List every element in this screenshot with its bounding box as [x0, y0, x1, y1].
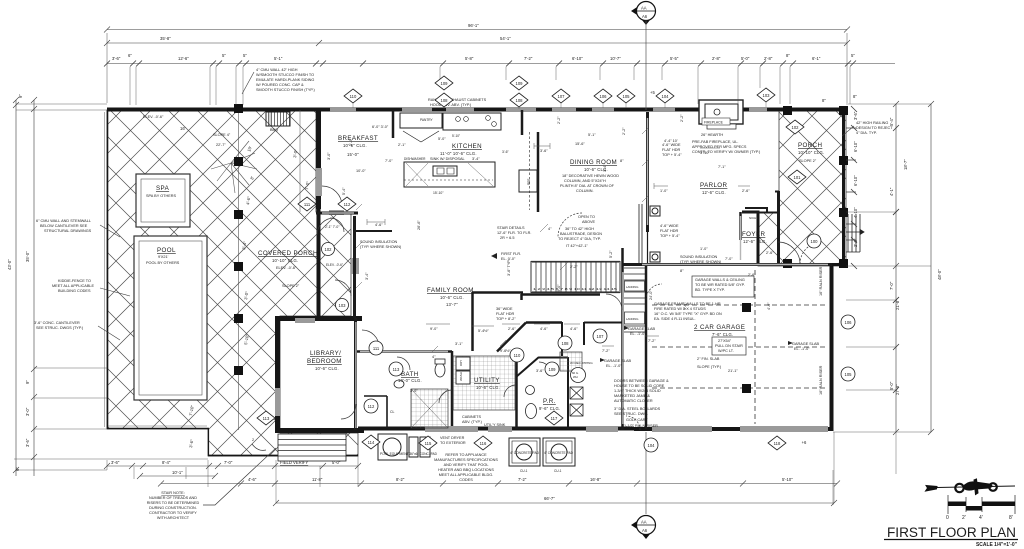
- svg-text:116: 116: [480, 441, 487, 446]
- svg-text:5'-0": 5'-0": [332, 460, 341, 465]
- svg-text:PARLOR: PARLOR: [700, 182, 728, 189]
- svg-text:2'-2": 2'-2": [680, 114, 684, 122]
- interior partitions: [316, 110, 832, 430]
- svg-text:WH: WH: [573, 375, 578, 379]
- family south wall + hall wall: [472, 291, 523, 294]
- svg-text:4'-6": 4'-6": [570, 327, 578, 331]
- family nook wall: [354, 230, 392, 232]
- garage hall walls: [584, 322, 622, 324]
- svg-text:3'-10": 3'-10": [700, 151, 710, 155]
- svg-text:W/PC LT.: W/PC LT.: [718, 349, 734, 353]
- svg-text:4" CONCRETE PAD: 4" CONCRETE PAD: [544, 451, 574, 455]
- svg-text:SLOPE 2": SLOPE 2": [799, 159, 817, 163]
- svg-text:5'-1": 5'-1": [274, 56, 283, 61]
- svg-text:FOYER: FOYER: [742, 231, 765, 238]
- hall diagonal walls: [497, 323, 526, 352]
- svg-text:35'-8": 35'-8": [160, 36, 171, 41]
- svg-text:9'X21': 9'X21': [158, 255, 169, 259]
- svg-text:REFER TO APPLIANCE: REFER TO APPLIANCE: [445, 453, 487, 457]
- svg-text:4'-1": 4'-1": [889, 187, 894, 196]
- svg-text:W/SMOOTH STUCCO FINISH TO: W/SMOOTH STUCCO FINISH TO: [256, 73, 314, 77]
- svg-text:3'-6" TYP.: 3'-6" TYP.: [507, 260, 511, 277]
- svg-text:SOUND INSULATION: SOUND INSULATION: [680, 255, 718, 259]
- svg-text:109: 109: [549, 367, 557, 372]
- svg-text:6'-10": 6'-10": [853, 141, 858, 152]
- library east wall: [354, 318, 357, 430]
- svg-text:EL. -1'-0": EL. -1'-0": [606, 364, 622, 368]
- svg-text:4'-0": 4'-0": [767, 302, 771, 310]
- svg-text:5'-0": 5'-0": [741, 56, 750, 61]
- svg-text:POOL BY OTHERS: POOL BY OTHERS: [146, 261, 180, 265]
- svg-text:WITH ARCHITECT: WITH ARCHITECT: [157, 516, 190, 520]
- svg-text:3'-0": 3'-0": [410, 389, 418, 393]
- svg-text:ELEV. -0'-6": ELEV. -0'-6": [276, 266, 297, 270]
- top dimension tier 2: [104, 40, 850, 46]
- svg-text:POOL EQUIPMENT 36"x6" CONC. PA: POOL EQUIPMENT 36"x6" CONC. PAD: [380, 452, 438, 456]
- svg-text:3'-0": 3'-0": [25, 407, 30, 416]
- svg-text:16" O.C. W/ 5/8" TYPE "X" GYP.: 16" O.C. W/ 5/8" TYPE "X" GYP. BD ON: [654, 312, 722, 316]
- porch columns: [783, 106, 848, 268]
- deck hatch area (pool deck + covered porch): [107, 110, 358, 456]
- svg-text:16': 16': [180, 126, 186, 131]
- svg-text:TOP + 5'-4": TOP + 5'-4": [662, 153, 682, 157]
- svg-text:CABINETS: CABINETS: [462, 415, 481, 419]
- section marker top: [631, 2, 656, 111]
- svg-text:CODES: CODES: [459, 478, 473, 482]
- washer dryer: [456, 357, 470, 384]
- door tag circles: [322, 234, 856, 452]
- railing note right: [856, 121, 893, 135]
- svg-text:10'-10" CLG.: 10'-10" CLG.: [272, 258, 298, 263]
- svg-text:SCALE 1/4"=1'-0": SCALE 1/4"=1'-0": [976, 542, 1018, 548]
- bottom dimension tier 2: [137, 473, 840, 487]
- svg-text:MEET ALL APPLICABLE BLDG.: MEET ALL APPLICABLE BLDG.: [439, 473, 493, 477]
- svg-text:OPEN TO: OPEN TO: [578, 215, 595, 219]
- pool equipment & pads: [378, 434, 575, 466]
- svg-text:11'-8": 11'-8": [312, 477, 323, 482]
- svg-text:102: 102: [792, 125, 800, 130]
- svg-text:5": 5": [243, 53, 247, 58]
- svg-text:DOORS BETWEEN GARAGE &: DOORS BETWEEN GARAGE &: [614, 379, 669, 383]
- svg-text:SLOPE 4": SLOPE 4": [213, 133, 231, 137]
- breakfast south wall: [316, 212, 358, 215]
- svg-text:7'-2": 7'-2": [518, 477, 527, 482]
- svg-text:7'-2": 7'-2": [648, 339, 656, 343]
- svg-text:105: 105: [845, 372, 853, 377]
- svg-text:2'-2": 2'-2": [557, 116, 561, 124]
- svg-text:TOP + 5'-4": TOP + 5'-4": [660, 234, 680, 238]
- svg-text:118: 118: [774, 441, 781, 446]
- svg-text:10'-1": 10'-1": [172, 470, 183, 475]
- svg-text:BELOW CANTILEVER SEE: BELOW CANTILEVER SEE: [40, 224, 88, 228]
- chase X boxes: [570, 387, 583, 399]
- svg-text:105: 105: [623, 94, 631, 99]
- svg-text:DURING CONSTRUCTION.: DURING CONSTRUCTION.: [149, 506, 197, 510]
- svg-text:2'-6": 2'-6": [766, 251, 774, 255]
- bath lav: [394, 380, 404, 388]
- svg-text:PRE-FAB FIREPLACE, UL.: PRE-FAB FIREPLACE, UL.: [692, 140, 738, 144]
- scale bar: [946, 495, 1015, 521]
- svg-text:106: 106: [845, 320, 853, 325]
- svg-text:9'-0": 9'-0": [430, 327, 438, 331]
- bath toilet: [394, 359, 586, 419]
- svg-text:107: 107: [597, 334, 605, 339]
- svg-text:COLUMN, AND 5"X24"H: COLUMN, AND 5"X24"H: [564, 179, 606, 183]
- svg-text:6'-10": 6'-10": [853, 175, 858, 186]
- svg-text:SOUND INSULATION: SOUND INSULATION: [360, 240, 398, 244]
- svg-text:5'-4": 5'-4": [889, 117, 894, 126]
- svg-text:EMULATE HARDI-PLANK SIDING: EMULATE HARDI-PLANK SIDING: [256, 78, 314, 82]
- svg-text:APPROVED PER MFG. SPECS: APPROVED PER MFG. SPECS: [692, 145, 747, 149]
- svg-text:115: 115: [425, 441, 432, 446]
- svg-text:FLAT HDR: FLAT HDR: [660, 229, 678, 233]
- exterior stair by library: [278, 434, 346, 461]
- bath north wall: [357, 350, 452, 353]
- svg-text:8": 8": [853, 94, 857, 99]
- svg-text:8'-4": 8'-4": [162, 460, 171, 465]
- porch hatch (right): [758, 109, 846, 266]
- svg-text:2'-8": 2'-8": [764, 56, 773, 61]
- svg-text:RISERS TO BE DETERMINED: RISERS TO BE DETERMINED: [147, 501, 200, 505]
- svg-text:4'-10": 4'-10": [853, 207, 858, 218]
- bath closet wall: [364, 396, 387, 428]
- garage west wall: [645, 266, 648, 429]
- fridge wall: [521, 110, 524, 135]
- main exterior walls: [105, 108, 847, 456]
- svg-text:2'-6": 2'-6": [508, 327, 516, 331]
- svg-text:2'-2": 2'-2": [570, 265, 578, 269]
- svg-text:P.R.: P.R.: [543, 398, 556, 405]
- svg-text:10'-6" CLG.: 10'-6" CLG.: [315, 366, 339, 371]
- svg-text:2'-6": 2'-6": [742, 189, 750, 193]
- svg-text:3'-6": 3'-6": [540, 149, 548, 153]
- svg-text:NUMBER OF TREADS AND: NUMBER OF TREADS AND: [149, 496, 197, 500]
- svg-text:3'-6": 3'-6": [111, 460, 120, 465]
- svg-text:2'-8": 2'-8": [712, 56, 721, 61]
- svg-text:TO EXTERIOR: TO EXTERIOR: [440, 441, 466, 445]
- svg-text:36" WIDE: 36" WIDE: [496, 307, 513, 311]
- svg-text:LANDING: LANDING: [626, 285, 638, 289]
- bottom dimension tier 3: 66'-7": [273, 432, 837, 506]
- svg-text:2: 2: [252, 438, 254, 442]
- svg-text:43'-0": 43'-0": [7, 259, 12, 270]
- svg-text:TO BE WR RATED 5/8" GYP.: TO BE WR RATED 5/8" GYP.: [695, 283, 745, 287]
- svg-text:KIDDIE-FENCE TO: KIDDIE-FENCE TO: [58, 279, 91, 283]
- svg-text:AA: AA: [641, 520, 647, 525]
- svg-text:5'-2": 5'-2": [609, 250, 613, 258]
- svg-text:3'-6": 3'-6": [536, 369, 544, 373]
- svg-text:112: 112: [368, 404, 375, 409]
- svg-text:108: 108: [562, 341, 570, 346]
- diamond tags mid/bottom: [257, 120, 806, 450]
- svg-text:9'-6½": 9'-6½": [500, 349, 511, 353]
- family room west wall: [353, 216, 356, 318]
- svg-text:4'-6": 4'-6": [248, 477, 257, 482]
- svg-text:0: 0: [946, 515, 949, 521]
- svg-text:DESIGN TO REJECT: DESIGN TO REJECT: [856, 126, 893, 130]
- svg-text:A6: A6: [642, 528, 648, 533]
- svg-text:GARAGE SLAB: GARAGE SLAB: [792, 342, 819, 346]
- columns on deck colonnade: [234, 104, 243, 375]
- compass flourish: [926, 479, 1016, 495]
- stair south wall: [521, 294, 600, 300]
- svg-text:21'-1": 21'-1": [728, 369, 738, 373]
- svg-text:16" RALN RISER: 16" RALN RISER: [819, 365, 823, 395]
- svg-text:5'-5": 5'-5": [670, 56, 679, 61]
- svg-text:101: 101: [794, 175, 802, 180]
- svg-text:SMOOTH STUCCO FINISH (TYP.): SMOOTH STUCCO FINISH (TYP.): [256, 88, 316, 92]
- svg-text:113: 113: [263, 416, 270, 421]
- library left wall: [275, 316, 280, 433]
- windows in top wall (gray): [275, 107, 767, 416]
- svg-text:3'-6" CONC. CANTILEVER: 3'-6" CONC. CANTILEVER: [34, 321, 80, 325]
- svg-text:7'-2": 7'-2": [602, 349, 610, 353]
- svg-text:PULL DN STAIR: PULL DN STAIR: [715, 344, 743, 348]
- door swing arcs: [317, 186, 822, 430]
- svg-text:5'-10": 5'-10": [782, 477, 793, 482]
- svg-text:1-3/4" THICK W/2x4 SOLID: 1-3/4" THICK W/2x4 SOLID: [614, 389, 661, 393]
- powder room walls: [539, 357, 568, 359]
- svg-text:1'-0": 1'-0": [700, 247, 708, 251]
- svg-text:9'-6" CLG.: 9'-6" CLG.: [539, 406, 560, 411]
- pool cutout: [134, 236, 207, 400]
- svg-text:(TYP. WHERE SHOWN): (TYP. WHERE SHOWN): [680, 260, 722, 264]
- svg-text:114: 114: [368, 440, 375, 445]
- svg-text:IT 42"+42'-1": IT 42"+42'-1": [566, 244, 588, 248]
- porch right wall: [842, 109, 845, 266]
- small tick/leader noise: [356, 128, 750, 352]
- svg-text:9": 9": [18, 94, 23, 98]
- kitchen: [400, 113, 537, 210]
- svg-text:PANTRY: PANTRY: [420, 118, 434, 122]
- svg-text:5": 5": [222, 53, 226, 58]
- svg-text:4" CONCRETE PAD: 4" CONCRETE PAD: [510, 451, 540, 455]
- svg-text:FAMILY ROOM: FAMILY ROOM: [427, 287, 474, 294]
- svg-text:TOP + 8'-2": TOP + 8'-2": [496, 317, 516, 321]
- top dimension tier 1: 96'-1": [104, 27, 850, 104]
- svg-text:1'-0": 1'-0": [660, 189, 668, 193]
- svg-text:7'-2": 7'-2": [524, 56, 533, 61]
- svg-text:FLAT HDR: FLAT HDR: [662, 148, 680, 152]
- svg-text:12'-6": 12'-6": [178, 56, 189, 61]
- svg-text:2': 2': [962, 515, 966, 521]
- entry steps right of porch: [846, 214, 864, 252]
- svg-text:ELEV. -0'-6": ELEV. -0'-6": [326, 263, 343, 267]
- pr toilet: [526, 404, 537, 419]
- svg-text:FIRST FLR.: FIRST FLR.: [501, 252, 521, 256]
- svg-text:1-1/2" RALN RISER: 1-1/2" RALN RISER: [624, 424, 658, 428]
- svg-text:FIELD VERIFY: FIELD VERIFY: [280, 460, 308, 465]
- svg-text:HEATER AND BBQ LOCATIONS: HEATER AND BBQ LOCATIONS: [438, 468, 494, 472]
- svg-text:W/ POURED CONC. CAP &: W/ POURED CONC. CAP &: [256, 83, 304, 87]
- svg-text:VENT DRYER: VENT DRYER: [440, 436, 465, 440]
- svg-text:15'-0": 15'-0": [347, 152, 359, 157]
- foyer north niche wall: [742, 208, 779, 213]
- svg-text:SPA BY OTHERS: SPA BY OTHERS: [146, 194, 177, 198]
- svg-text:BUILDING CODES: BUILDING CODES: [58, 289, 91, 293]
- svg-text:35'-0": 35'-0": [25, 251, 30, 262]
- garage right wall: [830, 264, 834, 431]
- top wall: [107, 108, 846, 112]
- svg-text:GARAGE SLAB: GARAGE SLAB: [604, 359, 631, 363]
- svg-text:UTILITY: UTILITY: [474, 377, 500, 384]
- svg-text:BALUSTRADE, DESIGN: BALUSTRADE, DESIGN: [560, 232, 602, 236]
- spa cutout: [136, 174, 190, 227]
- svg-text:26" HEARTH: 26" HEARTH: [701, 133, 723, 137]
- svg-text:36" TO 42" HIGH: 36" TO 42" HIGH: [565, 227, 594, 231]
- fireplace: [699, 100, 743, 129]
- deck notes: [143, 115, 231, 147]
- svg-text:22'-7": 22'-7": [216, 143, 226, 147]
- walkway bottom edge: [208, 429, 210, 456]
- sound insulation cavities (gray): [322, 118, 828, 428]
- svg-text:106: 106: [600, 94, 608, 99]
- deck bottom edge: [107, 428, 209, 430]
- svg-text:MARKETED JAMB &: MARKETED JAMB &: [614, 394, 650, 398]
- svg-text:ABOVE: ABOVE: [582, 220, 596, 224]
- svg-text:66'-7": 66'-7": [544, 496, 555, 501]
- svg-text:BATH: BATH: [401, 371, 419, 378]
- svg-text:100: 100: [811, 239, 819, 244]
- svg-text:12'-6" FLR. TO FLR.: 12'-6" FLR. TO FLR.: [497, 231, 531, 235]
- svg-text:16'-8": 16'-8": [590, 477, 601, 482]
- svg-text:18" DECORATIVE HEWN WOOD: 18" DECORATIVE HEWN WOOD: [562, 174, 619, 178]
- svg-text:42" HIGH RAILING: 42" HIGH RAILING: [856, 121, 888, 125]
- svg-text:54'-1": 54'-1": [500, 36, 511, 41]
- house bottom wall: [358, 427, 634, 431]
- svg-text:CU-1: CU-1: [554, 469, 562, 473]
- misc notes center: [360, 143, 722, 473]
- svg-text:GARAGE WALLS & CEILING: GARAGE WALLS & CEILING: [695, 278, 745, 282]
- svg-text:3'-6": 3'-6": [502, 150, 510, 154]
- library bottom wall: [275, 428, 364, 433]
- svg-text:SEE STRUC. DWGS (TYP.): SEE STRUC. DWGS (TYP.): [36, 326, 84, 330]
- house/garage wall: [621, 248, 624, 430]
- svg-text:5'-0": 5'-0": [438, 137, 446, 141]
- svg-text:DISHWASHER: DISHWASHER: [404, 157, 426, 161]
- svg-text:5'-8": 5'-8": [465, 56, 474, 61]
- svg-text:8': 8': [1009, 515, 1013, 521]
- svg-text:103: 103: [763, 93, 771, 98]
- svg-text:HOUSE TO BE SOLID CORE: HOUSE TO BE SOLID CORE: [614, 384, 665, 388]
- svg-text:10'-6" CLG.: 10'-6" CLG.: [476, 385, 500, 390]
- svg-text:112: 112: [344, 202, 351, 207]
- svg-text:2'-1": 2'-1": [398, 143, 406, 147]
- svg-text:AND VERIFY THAT POOL: AND VERIFY THAT POOL: [444, 463, 489, 467]
- svg-text:107: 107: [558, 94, 566, 99]
- svg-text:STAIR NOTE:: STAIR NOTE:: [161, 491, 185, 495]
- svg-text:7'-0": 7'-0": [725, 257, 733, 261]
- svg-text:2'-1" 7'-0": 2'-1" 7'-0": [325, 225, 340, 229]
- svg-text:+5: +5: [650, 90, 655, 95]
- svg-text:4': 4': [979, 515, 983, 521]
- svg-text:UTIL'Y SINK: UTIL'Y SINK: [484, 423, 506, 427]
- water heater: [571, 368, 586, 383]
- svg-text:BEDROOM: BEDROOM: [307, 358, 342, 365]
- svg-text:REF: REF: [527, 179, 531, 185]
- deck colonnade line: [238, 110, 240, 430]
- svg-text:7'-0": 7'-0": [224, 460, 233, 465]
- svg-text:5'-4": 5'-4": [342, 187, 346, 195]
- stairs (main): [531, 262, 620, 293]
- svg-text:HOOD ABV. ABV. (TYP.): HOOD ABV. ABV. (TYP.): [430, 103, 472, 107]
- svg-text:PORCH: PORCH: [798, 142, 822, 149]
- svg-text:102: 102: [325, 247, 333, 252]
- svg-text:11'-0" 10'-6" CLG.: 11'-0" 10'-6" CLG.: [440, 151, 477, 156]
- svg-text:5'-0": 5'-0": [889, 381, 894, 390]
- svg-text:8": 8": [822, 98, 826, 103]
- svg-text:6": 6": [128, 53, 132, 58]
- svg-text:+6: +6: [802, 440, 807, 445]
- svg-text:4'-6" WIDE: 4'-6" WIDE: [662, 143, 681, 147]
- svg-text:BREAKFAST: BREAKFAST: [338, 135, 378, 142]
- svg-text:110: 110: [514, 353, 521, 358]
- stair note bottom-left: [147, 491, 200, 520]
- svg-text:12'-6" CLG.: 12'-6" CLG.: [743, 239, 767, 244]
- bath & utility tile floors: [411, 389, 448, 428]
- svg-text:8'-2": 8'-2": [396, 477, 405, 482]
- svg-text:FLAT HDR: FLAT HDR: [496, 312, 514, 316]
- svg-text:15'-10": 15'-10": [433, 191, 444, 195]
- slope arrows on deck: [211, 141, 257, 193]
- svg-text:110: 110: [350, 94, 357, 99]
- top dimension tier 3: [104, 61, 895, 106]
- svg-text:BD. TYPE X TYP.: BD. TYPE X TYP.: [695, 288, 725, 292]
- deck rotated dims: [180, 126, 311, 448]
- dining/parlor wall: [646, 112, 649, 232]
- svg-text:LIBRARY/: LIBRARY/: [310, 350, 341, 357]
- back stair by garage: [624, 268, 645, 332]
- svg-text:8": 8": [786, 53, 790, 58]
- svg-text:111: 111: [373, 346, 380, 351]
- svg-text:6'-1": 6'-1": [812, 56, 821, 61]
- svg-text:3'-6": 3'-6": [25, 438, 30, 447]
- svg-text:GOLF CART: GOLF CART: [626, 418, 648, 422]
- svg-text:3'-0": 3'-0": [327, 152, 331, 160]
- svg-text:ABV. (TYP.): ABV. (TYP.): [462, 420, 483, 424]
- svg-text:W/ REC. PIPING: W/ REC. PIPING: [570, 361, 593, 365]
- svg-text:BBQ: BBQ: [270, 128, 278, 132]
- bbq / edg on deck: [266, 112, 290, 126]
- svg-text:104: 104: [662, 94, 670, 99]
- svg-text:CU-1: CU-1: [520, 469, 528, 473]
- svg-text:7'-1": 7'-1": [718, 165, 726, 169]
- foyer west wall: [739, 212, 742, 240]
- svg-text:FIREPLACE: FIREPLACE: [704, 121, 724, 125]
- svg-text:108: 108: [441, 98, 449, 103]
- svg-text:DINING ROOM: DINING ROOM: [570, 159, 617, 166]
- svg-text:6'-10": 6'-10": [572, 56, 583, 61]
- svg-text:CONTRACTOR TO VERIFY: CONTRACTOR TO VERIFY: [149, 511, 197, 515]
- garage bottom wall: [634, 427, 833, 431]
- svg-text:SLOPE (TYP.): SLOPE (TYP.): [697, 365, 722, 369]
- svg-text:ELEV. -0'-6": ELEV. -0'-6": [143, 115, 164, 119]
- parlor columns: [650, 206, 660, 262]
- svg-text:10'-7": 10'-7": [610, 56, 621, 61]
- svg-text:EA. SIDE 4 R-11 INSUL.: EA. SIDE 4 R-11 INSUL.: [654, 317, 696, 321]
- svg-text:10'-10" CLG.: 10'-10" CLG.: [798, 150, 824, 155]
- tag leaders: [353, 102, 766, 109]
- svg-text:3'-6": 3'-6": [112, 56, 121, 61]
- garage notes: [600, 276, 819, 373]
- svg-text:4'-6" WIDE: 4'-6" WIDE: [660, 224, 679, 228]
- svg-text:3'-4": 3'-4": [603, 164, 607, 172]
- svg-text:AA: AA: [641, 6, 647, 11]
- section marker bottom: [631, 432, 656, 539]
- porch bottom wall: [758, 263, 846, 266]
- svg-text:108: 108: [516, 98, 524, 103]
- window tags top: [344, 76, 775, 107]
